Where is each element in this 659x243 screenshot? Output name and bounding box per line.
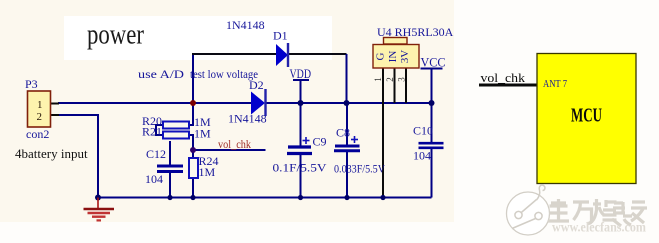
svg-text:2: 2 (385, 77, 395, 82)
junction vol_chk node (190, 147, 196, 153)
diode D2 (251, 89, 266, 116)
junction VCC node (429, 100, 435, 106)
capacitor C8 (334, 136, 360, 151)
svg-text:0.1F/5.5V: 0.1F/5.5V (273, 163, 328, 175)
wire VCC stem (431, 68, 433, 103)
svg-text:IN: IN (387, 51, 399, 63)
svg-text:VDD: VDD (290, 66, 312, 81)
svg-text:104: 104 (413, 149, 431, 163)
wire R20 right lead (188, 124, 194, 126)
wire C8 upper lead (346, 103, 348, 145)
svg-text:1: 1 (37, 99, 43, 111)
svg-text:1N4148: 1N4148 (228, 112, 267, 126)
svg-text:P3: P3 (25, 77, 38, 91)
watermark text 电子发烧友 (548, 199, 647, 226)
power symbol VDD (290, 66, 312, 81)
capacitor C9 (287, 137, 312, 154)
wire main rail left (battery+ to D2 anode) (58, 102, 252, 104)
junction U4 G/ground (380, 195, 385, 200)
svg-text:VCC: VCC (421, 55, 446, 70)
svg-text:1: 1 (373, 77, 383, 82)
wire R24 lower lead (192, 178, 194, 198)
svg-text:use A/D: use A/D (138, 67, 184, 81)
resistor R21 (163, 132, 189, 139)
svg-text:104: 104 (145, 172, 163, 186)
svg-text:D1: D1 (273, 29, 288, 43)
junction ground/battery- (95, 195, 101, 201)
svg-text:G: G (375, 52, 387, 60)
wire C12 upper lead (169, 141, 171, 166)
svg-text:power: power (87, 19, 144, 51)
wire main rail right (D2 cathode to VCC node) (265, 102, 432, 104)
diode D1 (276, 43, 288, 67)
junction C9/ground (298, 195, 303, 200)
svg-text:U4 RH5RL30A: U4 RH5RL30A (377, 25, 454, 39)
ground symbol (84, 198, 115, 221)
resistor R20 (163, 122, 189, 129)
junction R24/ground (190, 195, 195, 200)
wire D1 branch down to rail (346, 54, 348, 103)
power symbol VCC (421, 55, 446, 70)
wire C9 lower lead (300, 154, 302, 198)
wire R21 left lead (156, 134, 164, 136)
connector P3 (28, 91, 60, 127)
wire R24 upper lead (192, 150, 194, 158)
wire R20 left lead (156, 124, 164, 126)
wire D1 branch horizontal right (288, 53, 347, 55)
junction C8/ground (344, 195, 349, 200)
regulator U4 RH5RL30A (373, 38, 419, 198)
wire R21 to vol_chk node (192, 134, 194, 150)
watermark logo circle (507, 185, 550, 235)
svg-text:1M: 1M (194, 127, 211, 141)
svg-text:C10: C10 (413, 124, 433, 138)
junction C12/ground (167, 195, 172, 200)
svg-text:3: 3 (397, 77, 407, 82)
svg-text:MCU: MCU (571, 106, 602, 127)
wire C8 lower lead (346, 151, 348, 198)
svg-text:ANT 7: ANT 7 (543, 79, 567, 90)
resistor R24 (189, 158, 198, 178)
svg-text:vol_chk: vol_chk (481, 71, 526, 85)
junction D1/C8 node (344, 100, 350, 106)
svg-text:1N4148: 1N4148 (226, 18, 265, 32)
capacitor C12 (157, 166, 183, 172)
svg-text:3V: 3V (399, 50, 411, 64)
wire P3 pin2 horizontal (58, 114, 99, 116)
wire vol_chk to MCU (479, 84, 537, 87)
wire VDD stem (300, 80, 302, 103)
wire C10 upper lead (431, 103, 433, 143)
svg-text:C9: C9 (313, 135, 327, 149)
svg-text:test low voltage: test low voltage (190, 67, 258, 81)
wire vol_chk stub (193, 149, 266, 151)
svg-text:4battery input: 4battery input (15, 146, 88, 161)
svg-text:2: 2 (37, 111, 43, 123)
svg-text:1M: 1M (199, 165, 216, 179)
wire C12 lower lead (169, 172, 171, 198)
junction node A (rail/R20/D1) (190, 100, 196, 106)
wire ground rail (98, 197, 432, 199)
wire C9 upper lead (300, 103, 302, 146)
wire node A down to R20 (192, 103, 194, 126)
svg-text:C8: C8 (336, 126, 350, 140)
svg-text:con2: con2 (26, 127, 49, 141)
wire R20-R21 left jog (155, 124, 157, 136)
svg-text:C12: C12 (146, 147, 166, 161)
wire D1 branch horizontal left (192, 53, 277, 55)
capacitor C10 (419, 143, 444, 148)
svg-text:0.033F/5.5V: 0.033F/5.5V (334, 164, 386, 176)
wire P3 pin2 vertical down to ground rail (97, 114, 99, 198)
junction VDD node (298, 100, 304, 106)
wire C10 lower lead (431, 148, 433, 198)
wire D1 branch up from node A (192, 54, 194, 103)
MCU U? (537, 54, 636, 184)
wire R21 right lead (188, 134, 194, 136)
svg-text:R21: R21 (142, 125, 162, 139)
svg-text:vol_chk: vol_chk (218, 137, 251, 151)
svg-text:www.elecfans.com: www.elecfans.com (552, 220, 647, 235)
